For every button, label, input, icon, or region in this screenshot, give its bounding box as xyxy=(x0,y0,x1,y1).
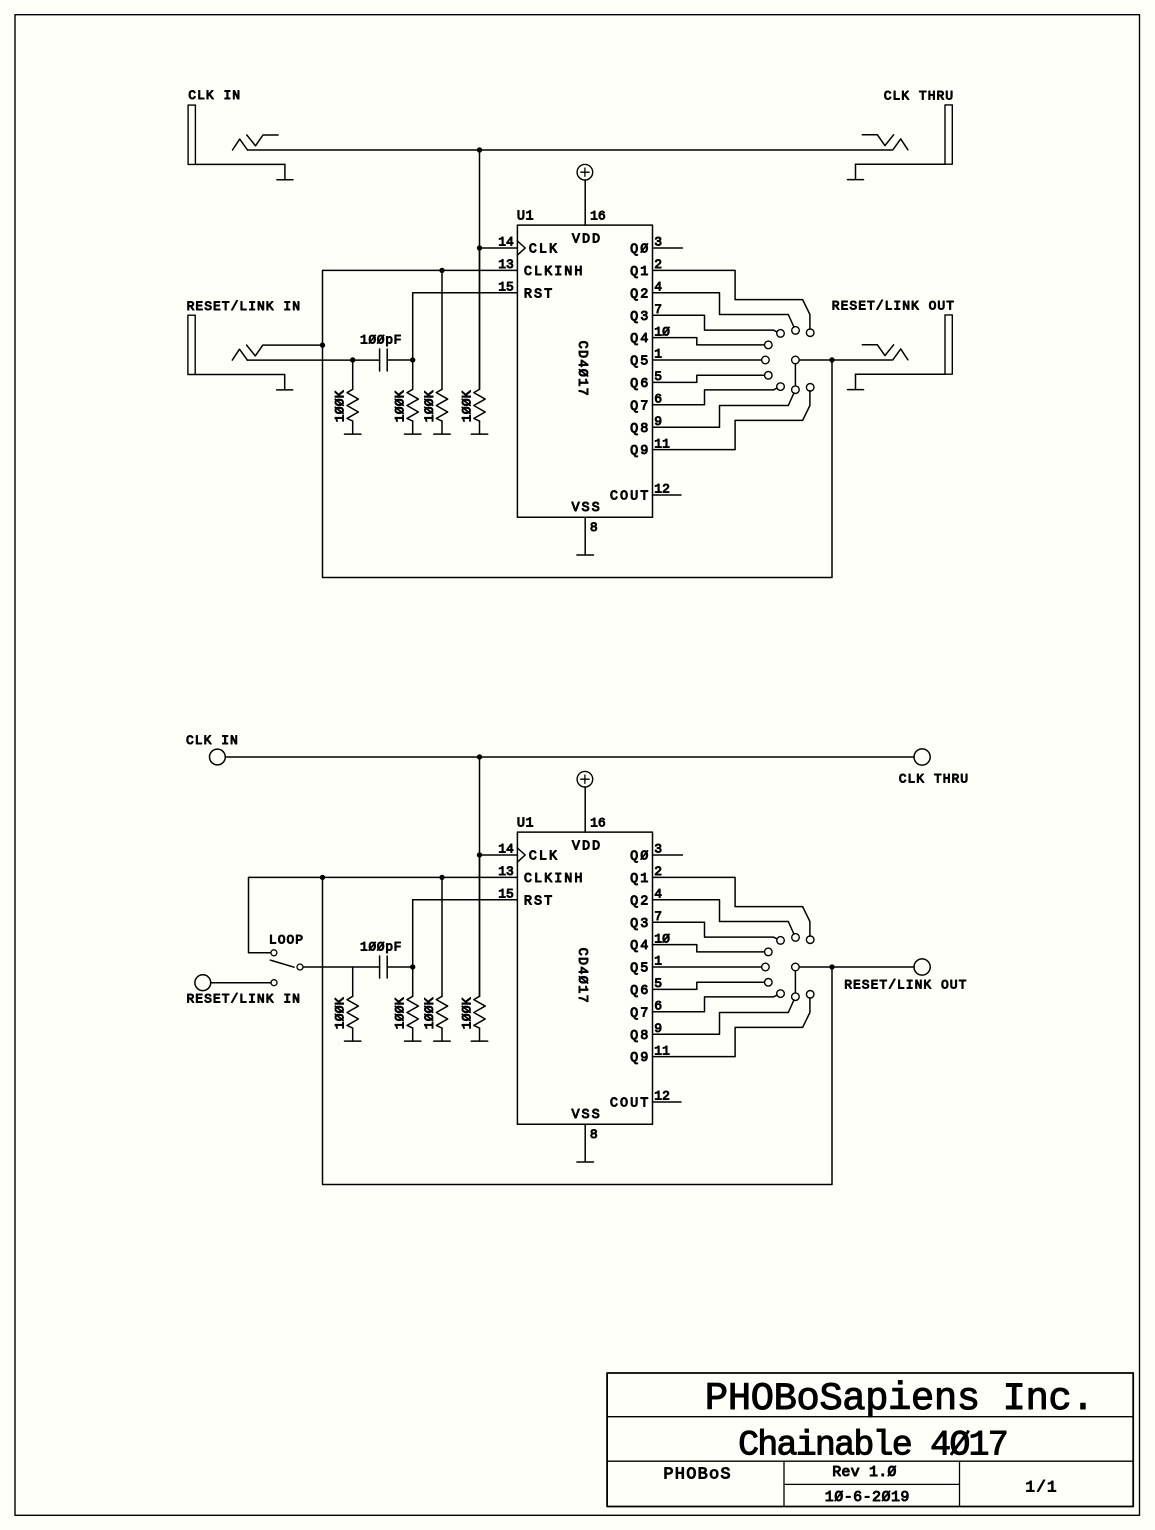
pin number 1 (U1') xyxy=(654,954,662,969)
wire (CLKINH extension, bottom) xyxy=(249,876,518,878)
svg-text:1ØØK: 1ØØK xyxy=(459,997,474,1029)
svg-text:Rev 1.Ø: Rev 1.Ø xyxy=(832,1464,896,1481)
title text PHOBoSapiens Inc. xyxy=(705,1377,1094,1421)
junction (CLKINH-R3 node) xyxy=(439,268,444,273)
svg-text:QØ: QØ xyxy=(630,850,650,865)
svg-text:Q3: Q3 xyxy=(630,917,650,932)
wire (Q1 to pad') xyxy=(653,877,810,936)
pin number 2 (U1') xyxy=(654,864,662,879)
jack J1 CLK IN sleeve wire xyxy=(195,164,285,179)
pad Q8' xyxy=(792,993,800,1001)
ground (R2') xyxy=(405,1028,421,1041)
ground (R4') xyxy=(471,1028,487,1041)
pin number 11 (U1) xyxy=(654,436,670,451)
svg-text:Q7: Q7 xyxy=(630,399,650,414)
wire (Q9 to pad) xyxy=(653,391,810,450)
svg-text:VSS: VSS xyxy=(571,1108,601,1123)
pin number 9 (U1') xyxy=(654,1021,662,1036)
pin name VSS (U1') xyxy=(571,1108,601,1123)
wire (VDD pin of U1') xyxy=(584,787,586,832)
pin number 8 (U1') xyxy=(590,1127,598,1142)
wire (CLKINH to loop) xyxy=(323,270,833,577)
pin number 15 (U1') xyxy=(498,887,514,902)
svg-text:Q4: Q4 xyxy=(630,332,650,347)
pin name RST (U1') xyxy=(524,894,554,909)
label 100K (R2') xyxy=(393,997,408,1029)
junction (CLK wire tee') xyxy=(477,754,482,759)
pin number 16 (U1') xyxy=(590,815,606,830)
pad output xyxy=(792,356,800,364)
svg-text:8: 8 xyxy=(590,1127,598,1142)
wire (CLK net vertical) xyxy=(479,150,481,389)
pad Q3' xyxy=(777,937,785,945)
svg-text:Q1: Q1 xyxy=(630,872,650,887)
pin name CLKINH (U1') xyxy=(524,872,585,887)
wire (output pad to RESET/LINK OUT, bottom) xyxy=(799,966,914,968)
svg-text:PHOBoS: PHOBoS xyxy=(663,1466,731,1485)
wire (Q4 to pad) xyxy=(653,338,765,345)
junction (CLKINH-R3 node, bottom) xyxy=(439,875,444,880)
wire (CLK net vertical') xyxy=(479,757,481,996)
switch SW1 loop contact xyxy=(271,950,277,956)
title text 1/1 xyxy=(1025,1479,1057,1497)
svg-text:8: 8 xyxy=(590,520,598,535)
pin name Q2 (U1') xyxy=(630,894,650,909)
wire (Q7 to pad) xyxy=(653,388,778,405)
svg-text:Q1: Q1 xyxy=(630,265,650,280)
ground (R3') xyxy=(434,1028,450,1041)
pin number 6 (U1) xyxy=(654,392,662,407)
pin number 3 (U1) xyxy=(654,235,662,250)
svg-text:CLK IN: CLK IN xyxy=(186,733,239,748)
jack J1 CLK IN body xyxy=(188,105,195,164)
svg-text:Q9: Q9 xyxy=(630,1051,650,1066)
svg-text:Q2: Q2 xyxy=(630,894,650,909)
wire (cap right to RST node) xyxy=(387,359,413,361)
pin name Q9 (U1) xyxy=(630,444,650,459)
label CLK THRU (bottom) xyxy=(899,772,969,787)
svg-text:1Ø-6-2Ø19: 1Ø-6-2Ø19 xyxy=(825,1489,910,1506)
pin number 7 (U1) xyxy=(654,302,662,317)
wire (loop, bottom) xyxy=(323,877,833,1184)
jack J3 RESET/LINK IN body xyxy=(188,315,195,374)
svg-text:CLK: CLK xyxy=(529,243,559,258)
pin name CLK (U1') xyxy=(529,850,559,865)
wire (CLKINH to loop contact) xyxy=(249,877,271,952)
wire (output pad to RESET/LINK OUT) xyxy=(799,359,892,361)
junction (cap-RST node) xyxy=(410,357,415,362)
resistor R2 100K xyxy=(407,360,418,421)
jack J2 CLK THRU body xyxy=(945,105,952,164)
svg-text:Q5: Q5 xyxy=(630,355,650,370)
pin number 2 (U1) xyxy=(654,257,662,272)
pin number 9 (U1) xyxy=(654,414,662,429)
pin number 11 (U1') xyxy=(654,1043,670,1058)
pin name Q7 (U1) xyxy=(630,399,650,414)
connector CLK THRU (bottom) xyxy=(914,749,930,765)
wire (Q2 to pad') xyxy=(653,900,794,934)
title block frame xyxy=(607,1373,1133,1507)
pin name Q8 (U1') xyxy=(630,1029,650,1044)
wire (Q0 stub) xyxy=(653,247,683,249)
svg-text:Q5: Q5 xyxy=(630,962,650,977)
capacitor C' 100pF xyxy=(380,956,388,978)
svg-text:1ØØK: 1ØØK xyxy=(422,997,437,1029)
wire (pin 14 connection) xyxy=(480,247,518,249)
pad Q7 xyxy=(777,383,785,391)
wire (RESET/LINK IN to switch) xyxy=(211,982,271,984)
label 100K (R3') xyxy=(422,997,437,1029)
ground (sleeve of J1 CLK IN) xyxy=(277,179,293,181)
connector CLK IN (bottom) xyxy=(210,749,226,765)
label RESET/LINK OUT (bottom) xyxy=(844,978,967,993)
svg-text:COUT: COUT xyxy=(610,1097,650,1112)
svg-text:Q2: Q2 xyxy=(630,287,650,302)
jack J3 RESET/LINK IN switch contact xyxy=(247,345,323,356)
svg-text:QØ: QØ xyxy=(630,243,650,258)
svg-text:1ØØK: 1ØØK xyxy=(393,997,408,1029)
pad Q1' xyxy=(806,936,814,944)
title block row divider 1 xyxy=(607,1416,1133,1418)
jack J1 CLK IN tip contact xyxy=(233,139,248,150)
wire (Q3 to pad') xyxy=(653,922,778,939)
pin number 4 (U1) xyxy=(654,280,662,295)
pin name Q6 (U1') xyxy=(630,984,650,999)
junction (cap-RST node') xyxy=(410,964,415,969)
pin name Q8 (U1) xyxy=(630,422,650,437)
svg-text:CD4Ø17: CD4Ø17 xyxy=(574,948,589,1004)
title block row divider 2 xyxy=(607,1460,1133,1462)
svg-text:RESET/LINK OUT: RESET/LINK OUT xyxy=(844,978,967,993)
IC U1 CD4017 body xyxy=(517,225,652,517)
wire (Q6 to pad) xyxy=(653,375,765,382)
svg-text:CLKINH: CLKINH xyxy=(524,872,585,887)
svg-text:RST: RST xyxy=(524,287,554,302)
label 100K (R1) xyxy=(333,390,348,422)
title block column divider 1 xyxy=(783,1461,785,1506)
pin number 12 (U1') xyxy=(654,1089,670,1104)
pin name Q3 (U1') xyxy=(630,917,650,932)
label CD4017 (U1) xyxy=(574,341,589,397)
title text 10-6-2019 xyxy=(825,1489,910,1506)
wire (pin 14 connection') xyxy=(480,854,518,856)
svg-text:Q6: Q6 xyxy=(630,377,650,392)
svg-text:RST: RST xyxy=(524,894,554,909)
pin number 1 (U1) xyxy=(654,347,662,362)
svg-text:Q7: Q7 xyxy=(630,1006,650,1021)
resistor R3' 100K xyxy=(436,877,447,1028)
pin 14 clock marker (U1) xyxy=(517,241,525,255)
label 100pF (C) xyxy=(360,333,402,348)
pin number 3 (U1') xyxy=(654,842,662,857)
pin name VSS (U1) xyxy=(571,501,601,516)
label CD4017 (U1') xyxy=(574,948,589,1004)
ground (sleeve of J4 RESET/LINK OUT) xyxy=(848,389,864,391)
label CLK THRU (top) xyxy=(884,89,954,104)
IC U1' CD4017 body xyxy=(517,832,652,1124)
wire (cap right to RST node') xyxy=(387,966,413,968)
pad Q3 xyxy=(777,330,785,338)
pin name Q4 (U1') xyxy=(630,939,650,954)
ground (VSS of U1') xyxy=(577,1161,594,1163)
svg-text:1ØØK: 1ØØK xyxy=(333,997,348,1029)
jack J4 RESET/LINK OUT switch contact xyxy=(862,345,893,356)
svg-text:CD4Ø17: CD4Ø17 xyxy=(574,341,589,397)
pad Q5 xyxy=(762,356,770,364)
pin name Q0 (U1) xyxy=(630,243,650,258)
pin name Q9 (U1') xyxy=(630,1051,650,1066)
wire (Q2 to pad) xyxy=(653,293,794,327)
wire (Q8 to pad') xyxy=(653,1000,794,1034)
resistor R1' 100K xyxy=(347,967,358,1028)
svg-text:U1: U1 xyxy=(517,210,534,225)
ground (VSS of U1) xyxy=(577,554,594,556)
svg-text:VDD: VDD xyxy=(572,839,602,854)
pin number 10 (U1) xyxy=(654,324,670,339)
wire (VSS pin of U1) xyxy=(584,517,586,555)
svg-text:1ØØK: 1ØØK xyxy=(333,390,348,422)
pin number 15 (U1) xyxy=(498,280,514,295)
pin name VDD (U1) xyxy=(572,232,602,247)
pin name Q6 (U1) xyxy=(630,377,650,392)
ground (R3) xyxy=(434,421,450,434)
switch SW1 arm xyxy=(270,960,294,967)
ground (R1) xyxy=(345,421,361,434)
wire (Q9 to pad') xyxy=(653,998,810,1057)
ground (R2) xyxy=(405,421,421,434)
wire (RST net') xyxy=(413,900,518,967)
pin name Q5 (U1') xyxy=(630,962,650,977)
pad Q1 xyxy=(806,329,814,337)
VDD power symbol xyxy=(577,164,593,180)
pin 14 clock marker (U1') xyxy=(517,848,525,862)
pin name Q7 (U1') xyxy=(630,1006,650,1021)
svg-text:CLK THRU: CLK THRU xyxy=(899,772,969,787)
label 100K (R3) xyxy=(422,390,437,422)
pin number 13 (U1') xyxy=(498,864,514,879)
pin name VDD (U1') xyxy=(572,839,602,854)
switch SW1 common contact xyxy=(297,964,303,970)
wire (Q6 to pad') xyxy=(653,982,765,989)
svg-text:Q4: Q4 xyxy=(630,939,650,954)
svg-text:RESET/LINK OUT: RESET/LINK OUT xyxy=(832,299,955,314)
label 100K (R1') xyxy=(333,997,348,1029)
pin name Q4 (U1) xyxy=(630,332,650,347)
label U1' xyxy=(517,817,534,832)
svg-text:COUT: COUT xyxy=(610,490,650,505)
svg-text:U1: U1 xyxy=(517,817,534,832)
pad Q6 xyxy=(765,372,773,380)
wire (Q4 to pad') xyxy=(653,945,765,952)
wire (COUT stub) xyxy=(653,494,682,496)
resistor R4 100K xyxy=(474,248,485,421)
jack J1 CLK IN switch contact xyxy=(247,135,278,146)
label 100pF (C') xyxy=(360,940,402,955)
svg-text:VSS: VSS xyxy=(571,501,601,516)
VDD power symbol' xyxy=(577,771,593,787)
label 100K (R2) xyxy=(393,390,408,422)
label CLK IN (bottom) xyxy=(186,733,239,748)
svg-text:1ØØK: 1ØØK xyxy=(422,390,437,422)
pad Q2 xyxy=(792,327,800,335)
svg-text:CLK IN: CLK IN xyxy=(188,88,241,103)
pin name COUT (U1') xyxy=(610,1097,650,1112)
wire (COUT stub') xyxy=(653,1101,682,1103)
title block column divider 2 xyxy=(959,1461,961,1506)
wire (VSS pin of U1') xyxy=(584,1124,586,1162)
svg-text:LOOP: LOOP xyxy=(269,932,304,947)
junction (tip to R1) xyxy=(350,357,355,362)
label RESET/LINK IN (bottom) xyxy=(187,991,301,1006)
resistor R2' 100K xyxy=(407,967,418,1028)
pin number 6 (U1') xyxy=(654,999,662,1014)
pin name RST (U1) xyxy=(524,287,554,302)
wire (VDD pin of U1) xyxy=(584,180,586,225)
jack J2 CLK THRU sleeve wire xyxy=(856,164,946,179)
wire (pad link') xyxy=(794,971,796,993)
svg-text:16: 16 xyxy=(590,815,606,830)
pad Q6' xyxy=(765,979,773,987)
pad output' xyxy=(792,963,800,971)
pin number 8 (U1) xyxy=(590,520,598,535)
pad Q7' xyxy=(777,990,785,998)
svg-text:Q8: Q8 xyxy=(630,1029,650,1044)
pad Q4 xyxy=(765,341,773,349)
ground (sleeve of J2 CLK THRU) xyxy=(848,179,864,181)
pin number 14 (U1) xyxy=(498,235,514,250)
connector RESET/LINK IN (bottom) xyxy=(195,975,211,991)
svg-text:CLKINH: CLKINH xyxy=(524,265,585,280)
pin number 5 (U1) xyxy=(654,369,662,384)
junction (CLKINH-loop tee, bottom) xyxy=(320,875,325,880)
pin number 4 (U1') xyxy=(654,887,662,902)
pin name Q2 (U1) xyxy=(630,287,650,302)
svg-text:1ØØpF: 1ØØpF xyxy=(360,333,402,348)
svg-text:VDD: VDD xyxy=(572,232,602,247)
label RESET/LINK IN (top) xyxy=(187,299,301,314)
resistor R1 100K xyxy=(347,360,358,421)
pin number 13 (U1) xyxy=(498,257,514,272)
title block rev/date divider xyxy=(784,1483,960,1485)
junction (output node, bottom) xyxy=(829,964,834,969)
wire (CLK IN to CLK THRU, bottom) xyxy=(225,756,914,758)
jack J4 RESET/LINK OUT body xyxy=(945,315,952,374)
svg-text:1ØØpF: 1ØØpF xyxy=(360,940,402,955)
title text Chainable 4017 xyxy=(738,1426,1007,1466)
jack J3 RESET/LINK IN tip contact xyxy=(232,349,247,360)
pad Q5' xyxy=(762,963,770,971)
svg-text:RESET/LINK IN: RESET/LINK IN xyxy=(187,299,301,314)
pin number 16 (U1) xyxy=(590,208,606,223)
pin number 14 (U1') xyxy=(498,842,514,857)
wire (Q5 to pad) xyxy=(653,359,762,361)
pin number 5 (U1') xyxy=(654,976,662,991)
pin name COUT (U1) xyxy=(610,490,650,505)
svg-text:Q3: Q3 xyxy=(630,310,650,325)
jack J4 RESET/LINK OUT tip contact xyxy=(893,349,908,360)
junction (link-in NC to loop) xyxy=(320,342,325,347)
pad Q2' xyxy=(792,934,800,942)
pad Q8 xyxy=(792,386,800,394)
ground (R1') xyxy=(345,1028,361,1041)
wire (tip of J3 RESET/LINK IN) xyxy=(247,359,379,361)
pin name Q1 (U1) xyxy=(630,265,650,280)
pin number 10 (U1') xyxy=(654,931,670,946)
pin number 12 (U1) xyxy=(654,482,670,497)
jack J2 CLK THRU tip contact xyxy=(893,139,908,150)
junction (pin 14 node') xyxy=(477,852,482,857)
wire (Q7 to pad') xyxy=(653,995,778,1012)
pin name Q1 (U1') xyxy=(630,872,650,887)
svg-text:1ØØK: 1ØØK xyxy=(393,390,408,422)
label 100K (R4') xyxy=(459,997,474,1029)
wire (RST net) xyxy=(413,293,518,360)
jack J2 CLK THRU switch contact xyxy=(862,135,893,146)
wire (Q8 to pad) xyxy=(653,393,794,427)
connector RESET/LINK OUT (bottom) xyxy=(914,959,930,975)
resistor R4' 100K xyxy=(474,855,485,1028)
svg-text:RESET/LINK IN: RESET/LINK IN xyxy=(187,991,301,1006)
pad Q4' xyxy=(765,948,773,956)
svg-text:CLK: CLK xyxy=(529,850,559,865)
ground (R4) xyxy=(471,421,487,434)
pad Q9 xyxy=(806,384,814,392)
pin name Q0 (U1') xyxy=(630,850,650,865)
label LOOP xyxy=(269,932,304,947)
svg-text:Q6: Q6 xyxy=(630,984,650,999)
junction (output node) xyxy=(829,357,834,362)
svg-text:16: 16 xyxy=(590,208,606,223)
capacitor C 100pF xyxy=(380,349,388,371)
pin number 7 (U1') xyxy=(654,909,662,924)
label U1 xyxy=(517,210,534,225)
title text Rev 1.0 xyxy=(832,1464,896,1481)
pad Q9' xyxy=(806,991,814,999)
wire (Q0 stub') xyxy=(653,854,683,856)
jack J3 RESET/LINK IN sleeve wire xyxy=(195,375,285,390)
wire (pad link) xyxy=(794,364,796,386)
junction (CLK wire tee) xyxy=(477,147,482,152)
svg-text:1ØØK: 1ØØK xyxy=(459,390,474,422)
wire (Q1 to pad) xyxy=(653,270,810,329)
wire (Q3 to pad) xyxy=(653,315,778,332)
pin name CLK (U1) xyxy=(529,243,559,258)
svg-text:1/1: 1/1 xyxy=(1025,1479,1057,1497)
resistor R3 100K xyxy=(436,270,447,421)
wire (switch common to cap) xyxy=(303,966,379,968)
label CLK IN (top) xyxy=(188,88,241,103)
title text PHOBoS xyxy=(663,1466,731,1485)
label 100K (R4) xyxy=(459,390,474,422)
jack J4 RESET/LINK OUT sleeve wire xyxy=(856,374,946,389)
switch SW1 throw contact xyxy=(271,980,277,986)
wire (Q5 to pad') xyxy=(653,966,762,968)
pin name Q5 (U1) xyxy=(630,355,650,370)
label RESET/LINK OUT (top) xyxy=(832,299,955,314)
svg-text:CLK THRU: CLK THRU xyxy=(884,89,954,104)
pin name Q3 (U1) xyxy=(630,310,650,325)
wire (CLK IN tip to CLK THRU tip) xyxy=(248,149,893,151)
junction (pin 14 node) xyxy=(477,245,482,250)
svg-text:Q9: Q9 xyxy=(630,444,650,459)
ground (sleeve of J3 RESET/LINK IN) xyxy=(277,389,293,391)
svg-text:PHOBoSapiens Inc.: PHOBoSapiens Inc. xyxy=(705,1377,1094,1421)
svg-text:Q8: Q8 xyxy=(630,422,650,437)
pin name CLKINH (U1) xyxy=(524,265,585,280)
svg-text:Chainable 4Ø17: Chainable 4Ø17 xyxy=(738,1426,1007,1466)
